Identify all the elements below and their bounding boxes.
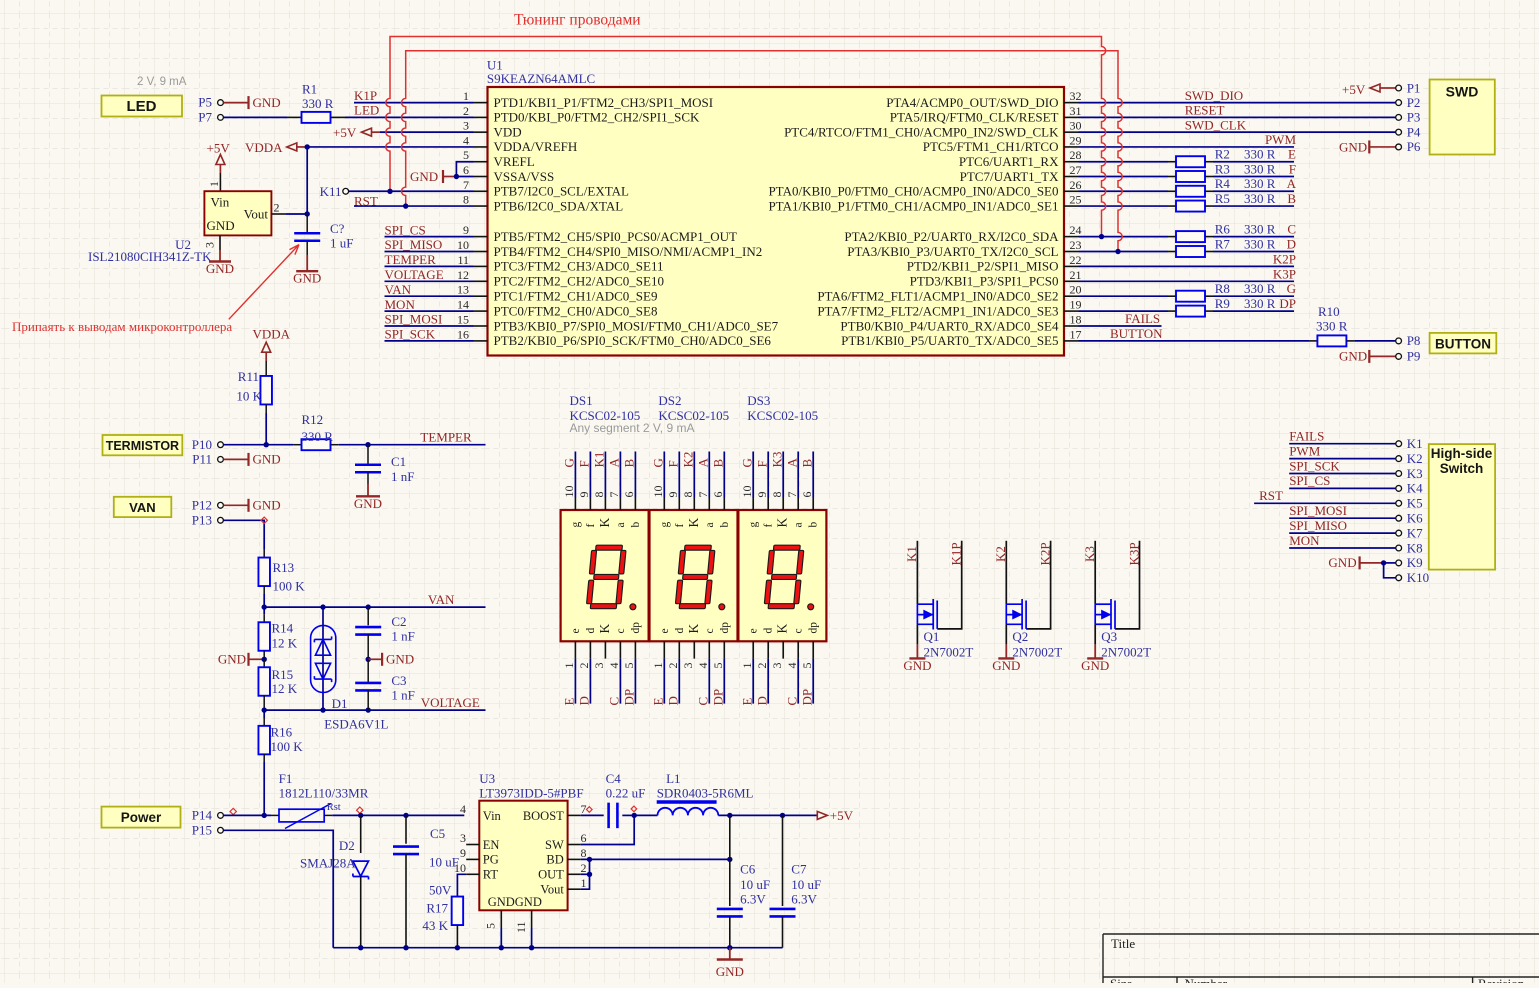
svg-text:D: D	[577, 696, 592, 705]
DS3 decimal point	[808, 604, 814, 610]
svg-text:P1: P1	[1407, 80, 1421, 95]
svg-text:LT3973IDD-5#PBF: LT3973IDD-5#PBF	[479, 785, 583, 800]
capacitor C6 wire from output	[729, 815, 731, 906]
resistor R13	[258, 558, 270, 587]
capacitor C6	[717, 908, 743, 911]
capacitor C?	[306, 214, 308, 233]
svg-text:9: 9	[755, 492, 769, 498]
wire MON stub to U1 pin 14	[385, 310, 474, 312]
wire C5 to gnd rail	[405, 854, 407, 948]
svg-text:TEMPER: TEMPER	[420, 430, 472, 445]
svg-text:RESET: RESET	[1185, 103, 1225, 118]
junction VAN C2	[366, 604, 371, 609]
pin K10	[1396, 575, 1402, 581]
resistor R9	[1176, 306, 1205, 317]
svg-text:R4: R4	[1215, 176, 1231, 191]
capacitor C5 wire	[405, 815, 407, 843]
U1 pin 10 lead	[474, 251, 488, 253]
no-ERC marker after F1	[357, 807, 363, 813]
svg-text:K: K	[775, 518, 790, 528]
ground at P11	[223, 458, 248, 460]
svg-text:b: b	[808, 522, 820, 528]
svg-text:K8: K8	[1407, 540, 1423, 555]
svg-text:K1P: K1P	[354, 88, 377, 103]
wire P15 down to gnd rail	[223, 830, 333, 947]
svg-text:6: 6	[711, 492, 725, 498]
pin K5	[1396, 500, 1402, 506]
svg-text:1: 1	[651, 663, 665, 669]
svg-text:DS3: DS3	[747, 393, 770, 408]
svg-text:2: 2	[463, 104, 469, 118]
svg-text:D: D	[1287, 236, 1296, 251]
svg-text:3: 3	[463, 119, 469, 133]
svg-text:7: 7	[696, 492, 710, 498]
junction red inner at U1 pin 23	[1115, 249, 1120, 254]
svg-text:6.3V: 6.3V	[791, 892, 817, 907]
DS2 top pin 9 wire net F	[678, 452, 680, 498]
DS2 bottom wire net D	[678, 659, 680, 704]
svg-text:F1: F1	[279, 771, 293, 786]
wire MON to K8	[1289, 547, 1396, 549]
svg-text:330 R: 330 R	[1244, 161, 1276, 176]
svg-text:330 R: 330 R	[1244, 236, 1276, 251]
svg-text:6: 6	[463, 163, 469, 177]
wire R1 to U1 pin 2	[331, 116, 345, 118]
svg-text:d: d	[674, 628, 686, 634]
svg-text:10: 10	[562, 486, 576, 498]
wire net VOLTAGE	[264, 709, 485, 711]
pin P6	[1396, 144, 1402, 150]
pin K1	[1396, 441, 1402, 447]
TERMISTOR port box	[103, 435, 183, 455]
TVS diode D1 wire	[322, 607, 324, 710]
svg-text:1 nF: 1 nF	[391, 469, 414, 484]
svg-text:GND: GND	[354, 496, 382, 511]
DS2 bottom pin 1 lead	[663, 641, 665, 658]
resistor R10	[1317, 335, 1346, 346]
svg-text:BUTTON: BUTTON	[1435, 336, 1491, 351]
wire bottom gnd rail	[333, 947, 782, 949]
DS1 top pin 7 wire net A	[619, 452, 621, 498]
svg-text:R5: R5	[1215, 191, 1230, 206]
svg-text:B: B	[622, 459, 637, 468]
junction VOLTAGE R16	[262, 707, 267, 712]
svg-text:5: 5	[711, 663, 725, 669]
svg-text:SPI_SCK: SPI_SCK	[1289, 458, 1340, 473]
svg-text:Q3: Q3	[1101, 629, 1117, 644]
svg-text:7: 7	[463, 178, 469, 192]
wire Q1 source to ground	[916, 624, 918, 644]
svg-text:VDDA/VREFH: VDDA/VREFH	[494, 139, 578, 154]
svg-text:10 uF: 10 uF	[791, 877, 821, 892]
svg-text:2: 2	[577, 663, 591, 669]
svg-text:4: 4	[696, 663, 710, 669]
svg-text:A: A	[696, 458, 711, 468]
junction VAN R14	[262, 604, 267, 609]
DS1 top pin 9 wire net F	[589, 452, 591, 498]
svg-text:11: 11	[514, 921, 528, 933]
svg-text:dp: dp	[719, 622, 731, 634]
svg-text:Switch: Switch	[1440, 461, 1484, 476]
svg-text:1812L110/33MR: 1812L110/33MR	[279, 785, 369, 800]
svg-text:KCSC02-105: KCSC02-105	[570, 408, 641, 423]
wire U1 to resistor R3	[1079, 176, 1169, 178]
wire K1P to Q1 gate	[937, 541, 962, 629]
svg-text:23: 23	[1070, 238, 1082, 252]
resistor R11	[260, 376, 272, 405]
svg-text:E: E	[562, 698, 577, 706]
wire +5V to U2 Vin pin 1	[219, 173, 221, 191]
svg-text:K2P: K2P	[1273, 252, 1296, 267]
svg-text:f: f	[763, 524, 775, 528]
U1 pin 19 lead	[1064, 310, 1079, 312]
svg-text:K: K	[775, 624, 790, 634]
svg-text:+5V: +5V	[830, 808, 854, 823]
svg-text:BD: BD	[546, 853, 563, 867]
wire RST to U1 pin 8	[354, 205, 474, 207]
wire VDDA node down to C? and U2 Vout	[306, 147, 308, 214]
inductor L1	[658, 808, 719, 816]
svg-text:Vout: Vout	[244, 207, 269, 222]
svg-text:SPI_MISO: SPI_MISO	[385, 237, 443, 252]
svg-text:PTA0/KBI0_P0/FTM0_CH0/ACMP0_IN: PTA0/KBI0_P0/FTM0_CH0/ACMP0_IN0/ADC0_SE0	[768, 184, 1058, 199]
svg-text:MON: MON	[1289, 533, 1320, 548]
svg-text:SPI_SCK: SPI_SCK	[385, 327, 436, 342]
wire R3 to net F	[1205, 176, 1213, 178]
svg-text:12 K: 12 K	[272, 681, 298, 696]
svg-text:26: 26	[1070, 178, 1082, 192]
svg-text:3: 3	[203, 242, 217, 248]
svg-text:VAN: VAN	[129, 500, 155, 515]
svg-text:C?: C?	[330, 221, 345, 236]
svg-text:PTA5/IRQ/FTM0_CLK/RESET: PTA5/IRQ/FTM0_CLK/RESET	[890, 110, 1059, 125]
diode D2 symbol	[353, 861, 369, 879]
svg-text:Q1: Q1	[924, 629, 940, 644]
svg-text:1: 1	[463, 89, 469, 103]
U3 pin 2 OUT lead	[568, 873, 581, 875]
DS1 bottom pin 3 lead	[604, 641, 606, 658]
wire U1 pin 21 K3P stub	[1079, 280, 1295, 282]
U1 pin 23 lead	[1064, 251, 1079, 253]
U3 pin 6 SW lead	[568, 844, 581, 846]
svg-text:21: 21	[1070, 268, 1082, 282]
junction U3 pin11 gnd rail	[529, 945, 534, 950]
red tuning wire outer loop	[386, 37, 1106, 237]
svg-text:K3: K3	[769, 452, 784, 468]
svg-text:FAILS: FAILS	[1289, 429, 1324, 444]
wire P13 to R13	[223, 520, 264, 549]
svg-text:PTA4/ACMP0_OUT/SWD_DIO: PTA4/ACMP0_OUT/SWD_DIO	[886, 95, 1058, 110]
svg-text:PTB7/I2C0_SCL/EXTAL: PTB7/I2C0_SCL/EXTAL	[494, 184, 630, 199]
svg-text:9: 9	[577, 492, 591, 498]
svg-text:B: B	[711, 459, 726, 468]
DS3 top pin 8 wire net K3	[782, 452, 784, 498]
svg-text:A: A	[1287, 176, 1297, 191]
wire P14 to fuse F1	[223, 814, 271, 816]
svg-text:g: g	[570, 522, 582, 528]
svg-text:9: 9	[666, 492, 680, 498]
svg-text:K1: K1	[592, 452, 607, 468]
resistor R15	[263, 659, 265, 667]
junction R17 gnd rail	[455, 945, 460, 950]
svg-text:R13: R13	[273, 560, 295, 575]
pin P4	[1396, 129, 1402, 135]
svg-text:G: G	[739, 458, 754, 467]
svg-text:6: 6	[581, 831, 587, 845]
wire SPI_MISO stub to U1 pin 10	[385, 251, 474, 253]
svg-text:1 nF: 1 nF	[391, 629, 414, 644]
svg-text:PTB6/I2C0_SDA/XTAL: PTB6/I2C0_SDA/XTAL	[494, 198, 624, 213]
svg-text:Rst: Rst	[327, 802, 341, 813]
svg-text:SDR0403-5R6ML: SDR0403-5R6ML	[657, 785, 754, 800]
svg-text:dp: dp	[630, 622, 642, 634]
svg-text:EN: EN	[483, 838, 500, 852]
svg-text:C2: C2	[391, 614, 406, 629]
wire net VAN	[264, 606, 485, 608]
svg-text:PTD0/KBI_P0/FTM2_CH2/SPI1_SCK: PTD0/KBI_P0/FTM2_CH2/SPI1_SCK	[494, 110, 700, 125]
svg-text:0.22 uF: 0.22 uF	[606, 785, 646, 800]
DS1 top pin 6 wire net B	[634, 452, 636, 498]
svg-text:25: 25	[1070, 193, 1082, 207]
svg-text:PTC7/UART1_TX: PTC7/UART1_TX	[960, 169, 1060, 184]
svg-text:R11: R11	[238, 369, 259, 384]
svg-text:VSSA/VSS: VSSA/VSS	[494, 169, 555, 184]
wire gnd to K9	[1384, 562, 1396, 564]
wire P7 to R1	[223, 116, 287, 118]
svg-text:K5: K5	[1407, 496, 1423, 511]
TVS diode D1 symbol	[311, 625, 336, 692]
svg-text:E: E	[739, 698, 754, 706]
svg-text:GND: GND	[253, 95, 281, 110]
svg-text:Size: Size	[1110, 976, 1133, 983]
U1 pin 14 lead	[474, 310, 488, 312]
svg-text:3: 3	[460, 831, 466, 845]
title block frame	[1103, 934, 1539, 983]
svg-text:PTC6/UART1_RX: PTC6/UART1_RX	[959, 154, 1059, 169]
wire C3 to VOLTAGE	[367, 690, 369, 710]
U1 pin 20 lead	[1064, 295, 1079, 297]
wire gnd to K10	[1384, 563, 1396, 578]
svg-text:Vout: Vout	[540, 883, 564, 897]
DS1 bottom wire net DP	[634, 659, 636, 704]
junction R11 node	[264, 442, 269, 447]
wire Q2 source to ground	[1005, 624, 1007, 644]
svg-text:PTB5/FTM2_CH5/SPI0_PCS0/ACMP1_: PTB5/FTM2_CH5/SPI0_PCS0/ACMP1_OUT	[494, 229, 738, 244]
wire BD to output node	[581, 858, 730, 860]
svg-text:P6: P6	[1407, 139, 1421, 154]
svg-text:20: 20	[1070, 283, 1082, 297]
pin P8	[1396, 338, 1402, 344]
DS2 bottom wire net C	[708, 659, 710, 704]
svg-text:TERMISTOR: TERMISTOR	[106, 439, 179, 453]
DS2 top pin 8 wire net K2	[693, 452, 695, 498]
svg-text:10: 10	[454, 861, 466, 875]
svg-text:P7: P7	[198, 109, 212, 124]
svg-text:VREFL: VREFL	[494, 154, 535, 169]
pin K3	[1396, 471, 1402, 477]
svg-text:2: 2	[274, 201, 280, 215]
svg-text:5: 5	[622, 663, 636, 669]
U3 pin 10 RT lead	[466, 873, 479, 875]
svg-text:PG: PG	[483, 853, 499, 867]
display DS2 body	[650, 510, 738, 641]
LED port box	[102, 96, 183, 117]
junction pin6 gnd	[454, 174, 459, 179]
wire SW node to L1	[634, 814, 657, 816]
wire U1 pin 32 SWD_DIO to P2	[1079, 102, 1396, 104]
svg-text:B: B	[799, 459, 814, 468]
svg-text:PWM: PWM	[1265, 132, 1297, 147]
DS2 bottom pin 4 lead	[708, 641, 710, 658]
svg-text:GND: GND	[1081, 658, 1109, 673]
svg-text:GND: GND	[386, 652, 414, 667]
svg-text:P5: P5	[198, 95, 212, 110]
DS1 bottom wire net C	[619, 659, 621, 704]
svg-text:c: c	[615, 628, 627, 633]
U1 pin 30 lead	[1064, 131, 1079, 133]
resistor R2	[1176, 156, 1205, 167]
svg-text:A: A	[607, 458, 622, 468]
svg-text:11: 11	[457, 253, 469, 267]
svg-text:dp: dp	[808, 622, 820, 634]
svg-text:1: 1	[562, 663, 576, 669]
DS3 bottom pin 3 lead	[782, 641, 784, 658]
svg-text:GND: GND	[253, 498, 281, 513]
wire BOOST to C4	[581, 814, 604, 816]
svg-text:L1: L1	[666, 771, 680, 786]
U1 pin 1 lead	[474, 102, 488, 104]
svg-text:R9: R9	[1215, 296, 1230, 311]
wire SPI_CS stub to U1 pin 9	[385, 236, 474, 238]
resistor R6	[1176, 231, 1205, 242]
wire R4 to net A	[1205, 190, 1213, 192]
U1 pin 31 lead	[1064, 116, 1079, 118]
svg-text:LED: LED	[127, 98, 157, 115]
wire C4 to SW node	[622, 814, 634, 816]
ground at bottom rail	[729, 948, 731, 960]
DS2 decimal point	[719, 604, 725, 610]
svg-text:K9: K9	[1407, 555, 1423, 570]
svg-text:24: 24	[1070, 223, 1082, 237]
wire P10 to R12	[223, 444, 293, 446]
svg-text:7: 7	[581, 802, 587, 816]
DS1 bottom wire net D	[589, 659, 591, 704]
svg-text:C: C	[784, 697, 799, 706]
svg-text:7: 7	[785, 492, 799, 498]
wire SPI_MOSI stub to U1 pin 15	[385, 325, 474, 327]
svg-text:D2: D2	[339, 838, 355, 853]
wire Q3 source to ground	[1094, 624, 1096, 644]
no-ERC marker after C4	[631, 806, 637, 812]
svg-text:KCSC02-105: KCSC02-105	[658, 408, 729, 423]
svg-text:c: c	[793, 628, 805, 633]
svg-text:27: 27	[1070, 163, 1082, 177]
wire R17 to gnd rail	[456, 925, 458, 948]
no-ERC marker at BOOST	[587, 807, 593, 813]
wire FAILS to K1	[1289, 443, 1396, 445]
svg-text:C: C	[696, 697, 711, 706]
svg-text:a: a	[615, 522, 627, 527]
svg-text:4: 4	[607, 663, 621, 669]
svg-text:C7: C7	[791, 862, 807, 877]
svg-text:PTC4/RTCO/FTM1_CH0/ACMP0_IN2/S: PTC4/RTCO/FTM1_CH0/ACMP0_IN2/SWD_CLK	[784, 124, 1059, 139]
wire node K1P to U1 pin 1	[354, 102, 474, 104]
junction D2	[358, 813, 363, 818]
wire R15 to VOLTAGE wire	[263, 696, 265, 711]
svg-text:D1: D1	[332, 696, 348, 711]
svg-text:15: 15	[457, 313, 469, 327]
svg-text:c: c	[704, 628, 716, 633]
junction C5	[403, 813, 408, 818]
DS2 top pin 6 wire net B	[723, 452, 725, 498]
svg-text:VDDA: VDDA	[253, 327, 291, 342]
Power port box	[102, 807, 181, 828]
svg-text:R14: R14	[272, 621, 294, 636]
svg-text:43 K: 43 K	[422, 918, 448, 933]
svg-text:ESDA6V1L: ESDA6V1L	[324, 717, 388, 732]
svg-text:P3: P3	[1407, 110, 1421, 125]
pin K8	[1396, 545, 1402, 551]
wire U1 to resistor R8	[1079, 295, 1169, 297]
svg-text:19: 19	[1070, 298, 1082, 312]
svg-text:DP: DP	[622, 689, 637, 706]
DS2 bottom wire net DP	[723, 659, 725, 704]
wire R7 to net D	[1205, 251, 1213, 253]
svg-text:LED: LED	[354, 103, 379, 118]
U1 pin 11 lead	[474, 265, 488, 267]
svg-text:10 K: 10 K	[236, 389, 262, 404]
U1 pin 32 lead	[1064, 102, 1079, 104]
power +5V output	[817, 811, 827, 819]
svg-text:8: 8	[463, 193, 469, 207]
junction VOLTAGE D1	[320, 707, 325, 712]
wire R6 to net C	[1205, 236, 1213, 238]
svg-text:b: b	[630, 522, 642, 528]
resistor R8	[1176, 291, 1205, 302]
svg-text:P12: P12	[192, 498, 212, 513]
wire SPI_MOSI to K6	[1289, 517, 1396, 519]
svg-text:GND: GND	[1339, 349, 1367, 364]
svg-text:S9KEAZN64AMLC: S9KEAZN64AMLC	[487, 71, 595, 86]
svg-text:1: 1	[740, 663, 754, 669]
svg-text:2: 2	[755, 663, 769, 669]
U1 pin 29 lead	[1064, 146, 1079, 148]
svg-text:3: 3	[770, 663, 784, 669]
U1 pin 22 lead	[1064, 265, 1079, 267]
svg-text:PTB3/KBI0_P7/SPI0_MOSI/FTM0_CH: PTB3/KBI0_P7/SPI0_MOSI/FTM0_CH1/ADC0_SE7	[494, 318, 779, 333]
svg-text:G: G	[651, 458, 666, 467]
VAN port box	[114, 497, 172, 517]
svg-text:4: 4	[463, 133, 469, 147]
wire U1 pin 31 RESET to P3	[1079, 116, 1396, 118]
wire R16 to power rail	[263, 754, 265, 762]
junction C1	[365, 442, 370, 447]
DS2 bottom pin 3 lead	[693, 641, 695, 658]
svg-text:SWD: SWD	[1446, 84, 1479, 100]
svg-text:K: K	[686, 624, 701, 634]
svg-text:5: 5	[484, 923, 498, 929]
wire R2 to net E	[1205, 161, 1213, 163]
ground at P5	[223, 102, 248, 104]
pin P3	[1396, 114, 1402, 120]
junction SW node	[632, 813, 637, 818]
transistor Q3 symbol	[1095, 599, 1115, 630]
svg-text:330 R: 330 R	[1316, 319, 1348, 334]
ground at P12	[223, 504, 248, 506]
wire R9 to net DP	[1205, 310, 1213, 312]
wire U1 pin 22 K2P stub	[1079, 265, 1295, 267]
svg-text:PTC5/FTM1_CH1/RTCO: PTC5/FTM1_CH1/RTCO	[923, 139, 1059, 154]
